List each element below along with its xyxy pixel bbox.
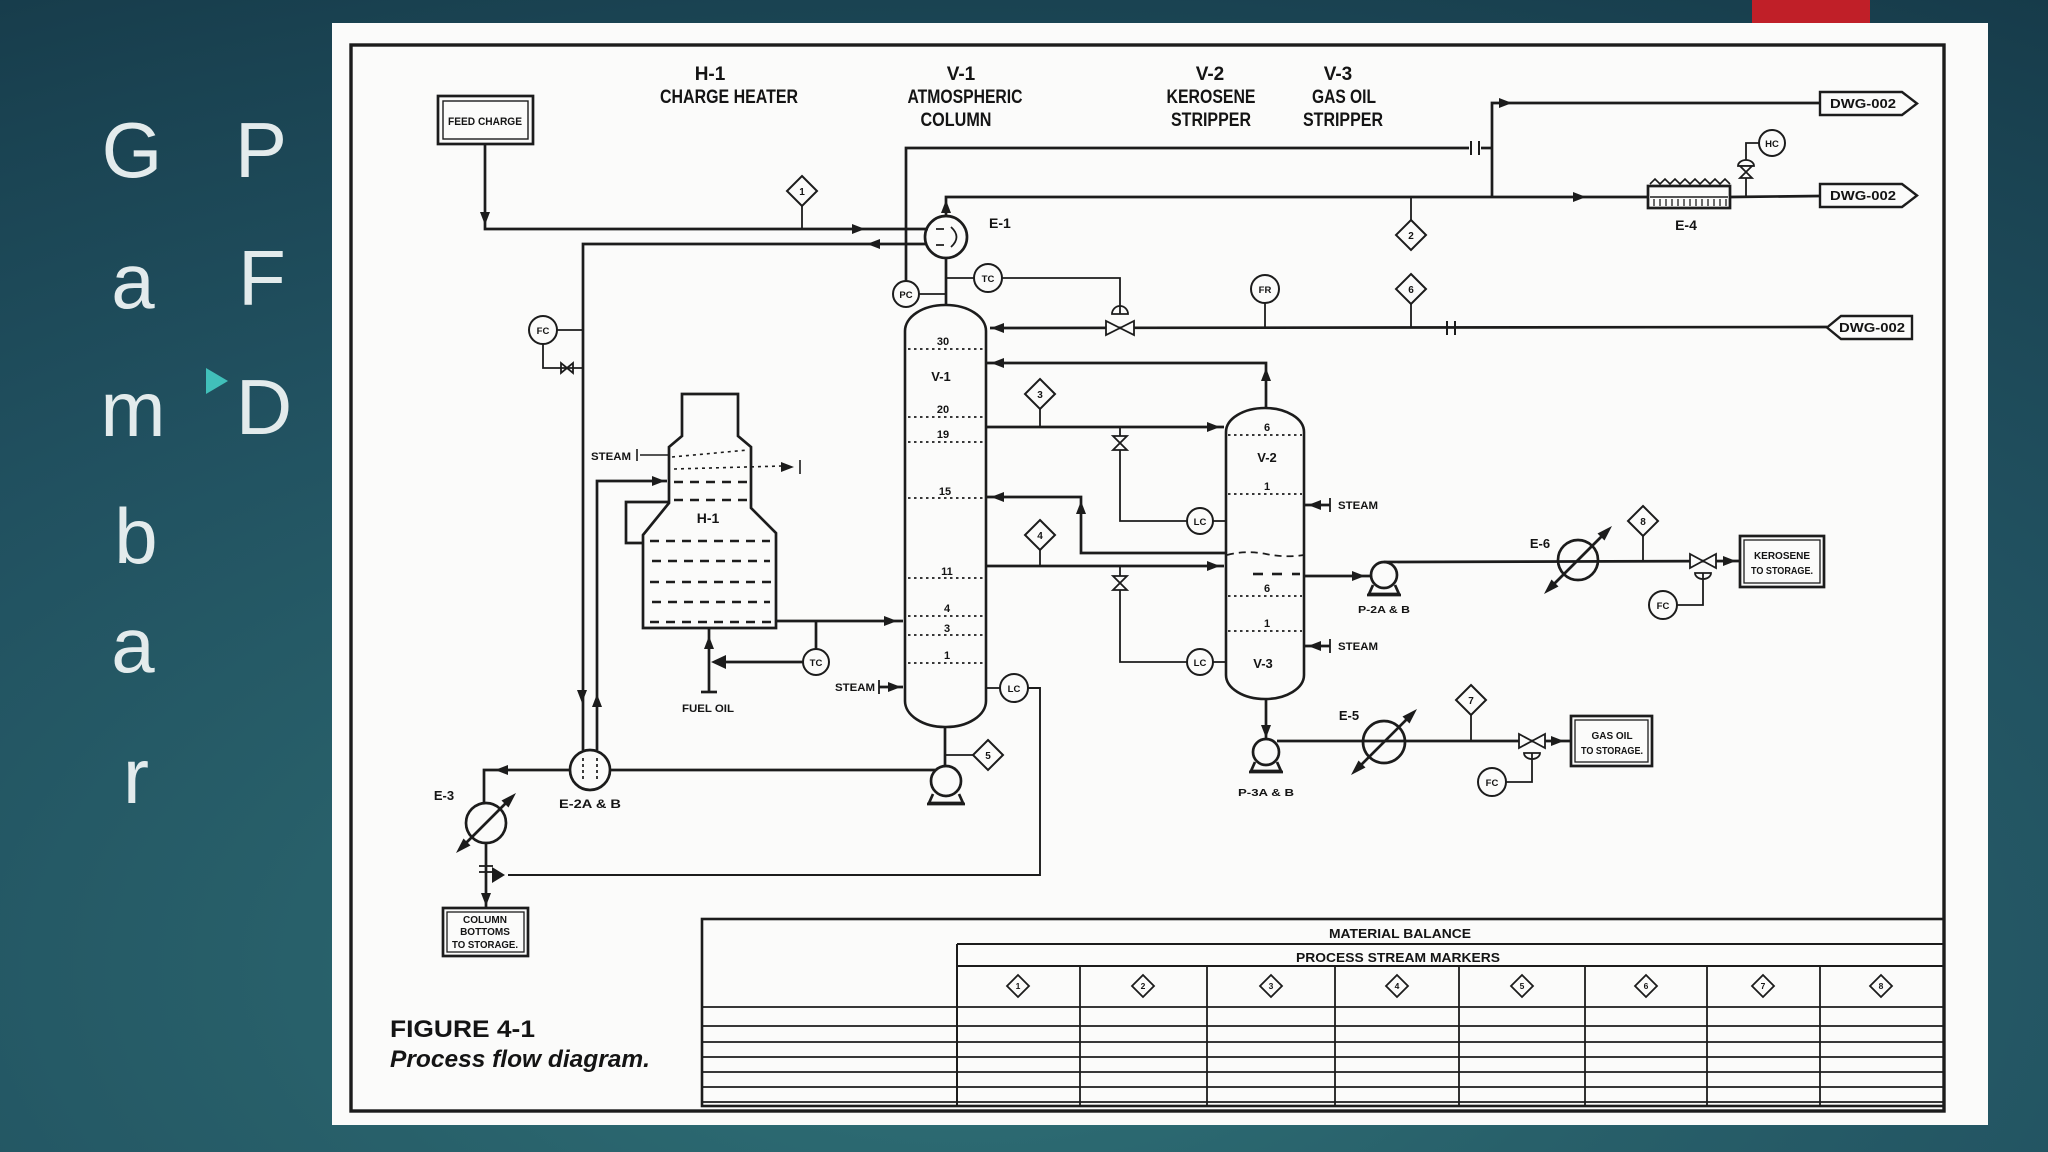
stream marker diamonds: [787, 176, 1658, 770]
svg-text:LC: LC: [1008, 684, 1021, 695]
svg-text:GAS OIL: GAS OIL: [1591, 731, 1632, 742]
diamond 5 stem: [945, 754, 973, 756]
instrument TC overhead: [974, 264, 1002, 292]
svg-text:E-5: E-5: [1339, 708, 1359, 723]
vessel V-1 atmospheric column: [905, 305, 986, 727]
svg-text:11: 11: [941, 566, 953, 578]
LC V-1 stem: [986, 687, 1000, 689]
wire feed charge to E-1: [485, 144, 928, 229]
svg-text:E-6: E-6: [1530, 536, 1550, 551]
svg-text:30: 30: [937, 336, 949, 348]
svg-text:LC: LC: [1194, 658, 1207, 669]
exchanger E-5: [1363, 721, 1405, 763]
svg-text:FC: FC: [1486, 778, 1499, 789]
svg-text:20: 20: [937, 404, 949, 416]
instrument FR: [1251, 275, 1279, 303]
LC V-3 loop: [1213, 661, 1226, 663]
svg-text:STRIPPER: STRIPPER: [1303, 110, 1383, 131]
wire kerosene draw V-1 to V-2: [986, 426, 1224, 429]
flow arrowheads: [456, 98, 1736, 906]
svg-text:1: 1: [799, 187, 805, 198]
steam line into V-1 bottom: [879, 686, 903, 689]
wire E-2 outlet riser to heater: [597, 481, 667, 750]
svg-text:E-1: E-1: [989, 215, 1011, 231]
instrument PC: [893, 281, 919, 307]
material balance table: [702, 919, 1944, 1106]
svg-text:E-4: E-4: [1675, 217, 1697, 233]
svg-text:P-2A & B: P-2A & B: [1358, 604, 1410, 616]
svg-text:V-1: V-1: [947, 64, 976, 85]
off-page connector DWG-002 reflux: [1827, 316, 1912, 339]
svg-text:H-1: H-1: [697, 510, 720, 526]
svg-text:19: 19: [937, 429, 949, 441]
LC V-1 signal to bottoms valve: [508, 688, 1040, 875]
V-2/V-3 tray lines: [1228, 435, 1302, 631]
heater air duct: [626, 502, 669, 543]
wire E-1 outlet to E-2 downcomer: [583, 244, 926, 750]
svg-text:8: 8: [1640, 517, 1646, 528]
svg-text:7: 7: [1761, 981, 1766, 991]
wire gas oil draw V-1 to V-3: [986, 565, 1224, 568]
svg-text:STEAM: STEAM: [1338, 641, 1378, 653]
svg-text:DWG-002: DWG-002: [1830, 188, 1896, 203]
heater convection tube rows: [650, 482, 772, 622]
E-5 utility arrows: [1403, 709, 1418, 724]
E-6 utility arrows: [1598, 526, 1613, 541]
TC to fuel valve: [726, 661, 803, 664]
svg-text:6: 6: [1264, 422, 1270, 434]
wire E-1 to E-4: [946, 197, 1648, 216]
exchanger E-6: [1558, 540, 1598, 580]
diagram border frame: [351, 45, 1944, 1111]
exchanger E-3: [466, 803, 506, 843]
instrument circles: [529, 130, 1785, 796]
svg-text:4: 4: [1037, 531, 1043, 542]
svg-text:BOTTOMS: BOTTOMS: [460, 927, 510, 938]
wire V-2 vapor return to V-1: [986, 363, 1266, 408]
off-page connector DWG-002 middle: [1820, 184, 1917, 207]
svg-text:5: 5: [1520, 981, 1525, 991]
instrument FC feed: [529, 316, 557, 344]
svg-text:1: 1: [1264, 618, 1270, 630]
svg-text:GAS OIL: GAS OIL: [1312, 87, 1376, 108]
wire hot vapor bypass: [906, 148, 1469, 304]
svg-text:E-2A & B: E-2A & B: [559, 797, 621, 811]
equipment and stream text labels: [434, 116, 1813, 951]
steam into V-3: [1304, 645, 1330, 648]
svg-text:STEAM: STEAM: [1338, 500, 1378, 512]
kerosene storage box: [1740, 536, 1824, 587]
svg-text:V-1: V-1: [931, 369, 951, 384]
svg-text:1: 1: [944, 650, 950, 662]
svg-text:3: 3: [1269, 981, 1274, 991]
column bottoms storage box: [443, 908, 528, 956]
svg-text:COLUMN: COLUMN: [463, 915, 507, 926]
instrument FC gas oil: [1478, 768, 1506, 796]
svg-text:V-2: V-2: [1196, 64, 1225, 85]
HC to E-4 valve signal: [1746, 143, 1759, 160]
fuel oil valve triangle: [711, 655, 726, 669]
bullet triangle: [206, 368, 228, 394]
svg-text:LC: LC: [1194, 517, 1207, 528]
svg-text:V-3: V-3: [1253, 656, 1273, 671]
instrument TC heater: [803, 649, 829, 675]
red accent bar: [1752, 0, 1870, 23]
wire bottoms pump to E-2: [610, 769, 936, 772]
equipment title labels: [660, 64, 1383, 131]
vertical title letters: PFD: [235, 111, 287, 189]
E-1 exchanger circle: [925, 216, 967, 258]
reflux control valve with actuator: [1112, 306, 1128, 314]
svg-text:TO STORAGE.: TO STORAGE.: [1581, 746, 1643, 757]
gas oil draw valve: [1113, 576, 1127, 590]
svg-text:H-1: H-1: [695, 64, 726, 85]
svg-text:15: 15: [939, 486, 951, 498]
FC kerosene loop: [1677, 573, 1703, 605]
svg-text:1: 1: [1016, 981, 1021, 991]
pump V-1 bottoms: [931, 766, 961, 796]
kerosene draw valve: [1113, 436, 1127, 450]
svg-text:6: 6: [1644, 981, 1649, 991]
storage box texts: [452, 551, 1813, 951]
svg-text:3: 3: [944, 623, 950, 635]
svg-text:2: 2: [1408, 231, 1414, 242]
TC to reflux valve signal: [1002, 278, 1120, 314]
valve on FC feed loop: [561, 363, 573, 373]
wire E-2 to E-3: [484, 770, 570, 803]
svg-text:4: 4: [1395, 981, 1400, 991]
svg-text:DWG-002: DWG-002: [1839, 320, 1905, 335]
wire P-2 to kerosene storage: [1384, 561, 1740, 562]
svg-text:STRIPPER: STRIPPER: [1171, 110, 1251, 131]
wire V-3 vapor return to V-1: [986, 497, 1226, 553]
pump P-2A&B: [1371, 562, 1397, 588]
svg-text:V-3: V-3: [1324, 64, 1353, 85]
wire E-4 outlet to DWG-002: [1730, 196, 1820, 197]
svg-text:STEAM: STEAM: [835, 682, 875, 694]
reflux line from DWG-002: [990, 327, 1827, 328]
PC tap line: [919, 293, 946, 295]
steam coil dotted tubes: [672, 450, 748, 457]
svg-text:4: 4: [944, 603, 951, 615]
svg-text:TO STORAGE.: TO STORAGE.: [452, 940, 518, 951]
FC gas oil loop: [1506, 753, 1532, 782]
vertical title letters: Gambar: [102, 111, 163, 189]
svg-text:ATMOSPHERIC: ATMOSPHERIC: [908, 87, 1023, 108]
gas oil product valve: [1519, 734, 1545, 748]
svg-text:7: 7: [1468, 696, 1474, 707]
steam into V-2: [1304, 504, 1330, 507]
svg-text:FR: FR: [1259, 285, 1272, 296]
wire kerosene product to P-2: [1304, 575, 1371, 578]
V-1 tray numbers: [937, 336, 1270, 662]
E-3 utility arrows: [502, 793, 517, 808]
svg-text:TC: TC: [982, 274, 995, 285]
pump P-3A&B: [1253, 739, 1279, 765]
wire bypass riser to DWG-002: [1492, 103, 1820, 197]
heater H-1 outline: [643, 394, 776, 628]
instrument LC V-1: [1000, 674, 1028, 702]
wire V-1 bottoms outlet: [944, 727, 947, 766]
instrument LC V-2: [1187, 508, 1213, 534]
off-page connector DWG-002 top: [1820, 92, 1917, 339]
svg-text:3: 3: [1037, 390, 1043, 401]
fuel oil line: [708, 628, 711, 692]
svg-text:MATERIAL BALANCE: MATERIAL BALANCE: [1329, 926, 1471, 941]
svg-text:V-2: V-2: [1257, 450, 1277, 465]
V-2/V-3 division head: [1227, 552, 1304, 556]
svg-text:HC: HC: [1765, 139, 1779, 150]
wire V-1 overhead to E-1: [945, 258, 948, 304]
wire V-3 bottoms to P-3: [1265, 699, 1268, 740]
TC tap on transfer line: [815, 621, 818, 649]
gas oil storage box: [1571, 716, 1652, 766]
svg-text:DWG-002: DWG-002: [1830, 96, 1896, 111]
gas oil diamond stem: [1470, 715, 1472, 741]
svg-text:FEED CHARGE: FEED CHARGE: [448, 116, 522, 128]
svg-text:FUEL OIL: FUEL OIL: [682, 703, 734, 715]
wire E-3 to bottoms valve: [485, 843, 488, 908]
kerosene product valve: [1690, 554, 1716, 568]
svg-text:TC: TC: [810, 658, 823, 669]
svg-text:FC: FC: [1657, 601, 1670, 612]
TC tap line: [946, 277, 974, 279]
instrument FC kerosene: [1649, 591, 1677, 619]
exchanger E-2A&B: [570, 750, 610, 790]
wire P-3 to gas oil storage: [1277, 740, 1571, 743]
svg-text:6: 6: [1264, 583, 1270, 595]
instrument HC: [1759, 130, 1785, 156]
svg-text:KEROSENE: KEROSENE: [1167, 87, 1256, 108]
steam coil inlet: [636, 449, 638, 461]
instrument LC V-3: [1187, 649, 1213, 675]
svg-text:KEROSENE: KEROSENE: [1754, 551, 1810, 562]
E-4 exchanger body: [1648, 186, 1730, 208]
svg-text:PC: PC: [899, 290, 912, 301]
svg-text:CHARGE HEATER: CHARGE HEATER: [660, 87, 798, 108]
FC instrument loop lines: [557, 329, 583, 331]
svg-text:E-3: E-3: [434, 788, 454, 803]
LC V-2 loop: [1213, 520, 1226, 522]
svg-text:P-3A & B: P-3A & B: [1238, 787, 1295, 799]
svg-text:Process flow diagram.: Process flow diagram.: [390, 1046, 650, 1073]
vessel V-2/V-3 stacked strippers: [1226, 408, 1304, 699]
V-1 tray lines: [908, 349, 983, 663]
feed charge box: [438, 96, 533, 144]
svg-text:5: 5: [985, 751, 991, 762]
bottoms valve actuator triangle: [492, 867, 505, 883]
svg-text:8: 8: [1879, 981, 1884, 991]
heater transfer line to V-1: [776, 620, 903, 623]
svg-text:1: 1: [1264, 481, 1270, 493]
FR stem: [1264, 303, 1266, 327]
white scanned figure panel: [332, 23, 1988, 1125]
svg-text:TO STORAGE.: TO STORAGE.: [1751, 566, 1813, 577]
svg-text:PROCESS STREAM MARKERS: PROCESS STREAM MARKERS: [1296, 950, 1500, 965]
svg-text:FC: FC: [537, 326, 550, 337]
flange pair on bypass line: [1470, 141, 1472, 155]
flange pair on reflux line: [1446, 321, 1448, 335]
kerosene diamond stem: [1642, 536, 1644, 561]
svg-text:2: 2: [1141, 981, 1146, 991]
svg-text:COLUMN: COLUMN: [921, 110, 992, 131]
svg-text:FIGURE 4-1: FIGURE 4-1: [390, 1016, 535, 1043]
control valves: [561, 160, 1754, 759]
svg-text:STEAM: STEAM: [591, 451, 631, 463]
svg-text:6: 6: [1408, 285, 1414, 296]
table stream marker diamonds: [1007, 975, 1892, 997]
E-4 inlet valve with actuator: [1738, 160, 1754, 166]
